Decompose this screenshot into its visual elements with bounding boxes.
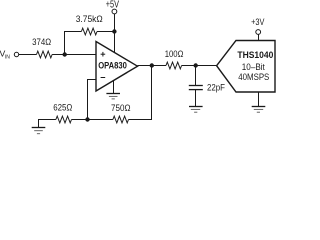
input terminal VIN bbox=[14, 52, 18, 56]
wire node A up to top rail left segment bbox=[65, 32, 82, 55]
wire capacitor to ground bbox=[195, 90, 197, 106]
op-amp minus sign bbox=[101, 77, 106, 79]
wire op-amp output to R100 bbox=[138, 65, 167, 67]
svg-text:THS1040: THS1040 bbox=[237, 50, 273, 61]
op-amp plus sign bbox=[101, 52, 106, 57]
resistor R 625 ohm bbox=[56, 116, 72, 123]
svg-text:374Ω: 374Ω bbox=[32, 37, 51, 47]
wire cap node down to capacitor bbox=[195, 66, 197, 86]
ground symbol bottom-left bbox=[32, 128, 46, 134]
wire +5V down to op-amp power pin bbox=[114, 14, 116, 53]
wire R625 to node C to R750 bbox=[72, 119, 113, 121]
svg-text:625Ω: 625Ω bbox=[53, 103, 72, 113]
output node junction bbox=[150, 63, 154, 67]
resistor R 750 ohm bbox=[113, 116, 129, 123]
capacitor C 22pF bbox=[189, 86, 203, 90]
op-amp ground bbox=[106, 81, 120, 99]
resistor R 100 ohm bbox=[166, 62, 182, 69]
svg-text:IN: IN bbox=[5, 55, 10, 61]
svg-text:OPA830: OPA830 bbox=[98, 61, 127, 71]
svg-text:+3V: +3V bbox=[251, 17, 264, 27]
wire R3.75k to +5V tap bbox=[97, 31, 115, 33]
wire VIN to R374 bbox=[19, 54, 37, 56]
svg-text:+5V: +5V bbox=[106, 0, 119, 10]
+3V supply terminal bbox=[256, 30, 261, 35]
wire +3V to ADC top bbox=[258, 34, 260, 40]
svg-text:22pF: 22pF bbox=[207, 82, 225, 92]
+5V supply terminal bbox=[112, 9, 117, 14]
node B junction +5V tap bbox=[112, 29, 116, 33]
wire inverting input bbox=[88, 80, 97, 120]
wire ground corner to R625 bbox=[39, 120, 56, 128]
node A junction bbox=[62, 52, 66, 56]
svg-text:750Ω: 750Ω bbox=[111, 103, 131, 113]
op-amp U1 OPA830 triangle bbox=[96, 42, 138, 92]
wire R100 to ADC input bbox=[182, 65, 217, 67]
svg-text:3.75kΩ: 3.75kΩ bbox=[76, 14, 103, 24]
wire R374 to op-amp + input bbox=[52, 54, 96, 56]
svg-text:40MSPS: 40MSPS bbox=[238, 72, 269, 82]
cap node junction bbox=[194, 63, 198, 67]
node C feedback junction bbox=[85, 117, 89, 121]
wire R750 up to output node bbox=[129, 66, 152, 120]
resistor R 3.75k ohm bbox=[81, 28, 97, 35]
ADC ground bbox=[252, 92, 266, 112]
svg-text:100Ω: 100Ω bbox=[165, 49, 184, 59]
svg-text:10–Bit: 10–Bit bbox=[242, 62, 265, 72]
ADC U2 THS1040 symbol bbox=[217, 41, 275, 93]
ground symbol under capacitor bbox=[189, 107, 203, 113]
resistor R 374 ohm bbox=[37, 51, 53, 58]
